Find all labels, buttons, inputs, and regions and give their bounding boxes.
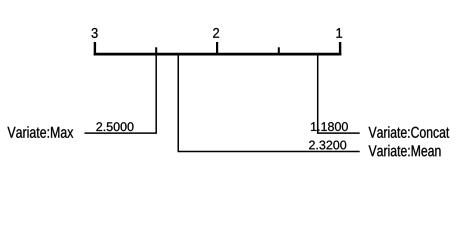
big tick rank 2 [216,42,218,56]
critical difference diagram [0,0,460,188]
axis label 1 [336,28,342,38]
small tick rank 1.5 [278,47,280,55]
wire Variate:Max (rank 2.5) [85,54,157,133]
big tick rank 3 [94,42,96,56]
axis line [94,53,342,56]
axis label 2 [213,28,219,38]
wire Variate:Mean (rank 2.32) [178,54,359,151]
wire Variate:Concat (rank 1.18) [318,54,360,133]
rank value 1.1800 [311,122,348,131]
axis label 3 [91,28,97,38]
label Variate:Mean [369,145,441,157]
label Variate:Concat [369,126,450,138]
small tick rank 2.5 [155,47,157,55]
rank value 2.3200 [309,141,346,150]
big tick rank 1 [339,42,341,56]
label Variate:Max [7,126,73,138]
rank value 2.5000 [96,122,133,131]
